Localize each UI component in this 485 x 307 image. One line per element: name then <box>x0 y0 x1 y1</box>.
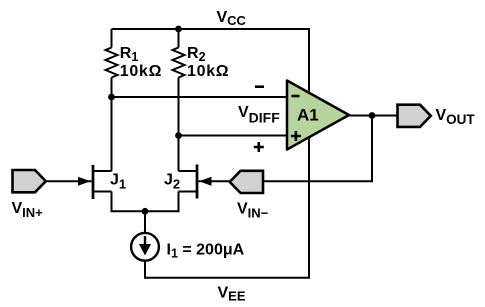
node VCC-R2 junction <box>175 26 182 33</box>
svg-text:A1: A1 <box>297 105 319 124</box>
svg-text:R1: R1 <box>120 45 139 64</box>
svg-text:10kΩ: 10kΩ <box>120 63 162 80</box>
node R1 to inverting input <box>108 94 115 101</box>
node output junction <box>369 112 376 119</box>
port tag VIN- <box>230 171 263 193</box>
svg-text:VIN+: VIN+ <box>12 200 44 220</box>
arrow into J2 gate <box>199 177 212 186</box>
pin mark plus (noninverting input) <box>291 131 301 141</box>
svg-text:VIN−: VIN− <box>237 200 269 220</box>
polarity label minus (above VDIFF) <box>255 85 264 88</box>
port tag VOUT <box>398 105 431 127</box>
port tag VIN+ <box>13 170 46 192</box>
wire R2 bottom lead down to J2 drain <box>178 78 180 172</box>
wire noninverting input (R2 node to op-amp plus) <box>179 135 288 137</box>
polarity label plus (below VDIFF) <box>254 142 264 152</box>
resistor R1 <box>106 48 118 78</box>
wire feedback from output node to VIN- tag <box>264 116 372 182</box>
svg-text:VEE: VEE <box>218 284 246 303</box>
svg-text:VDIFF: VDIFF <box>238 104 280 126</box>
wire R2 top lead <box>178 29 180 48</box>
transistor J1 (JFET, gate left) <box>93 165 112 199</box>
svg-text:J1: J1 <box>110 172 126 192</box>
wire R1 bottom lead down to J1 drain <box>111 78 113 172</box>
current source I1 <box>131 233 159 261</box>
wire op-amp output <box>349 115 398 117</box>
op-amp A1 <box>287 81 349 150</box>
node common source tail <box>142 208 149 215</box>
svg-text:I1 = 200μA: I1 = 200μA <box>167 241 245 260</box>
wire J1 source to common tail to J2 source <box>112 192 179 212</box>
wire VCC top rail and drop to op-amp V+ pin <box>112 29 310 92</box>
wire R1 top lead <box>111 29 113 48</box>
svg-text:VCC: VCC <box>217 9 247 28</box>
node R2 column to noninverting input <box>175 132 182 139</box>
svg-text:VOUT: VOUT <box>436 107 476 127</box>
resistor R2 <box>173 48 185 78</box>
transistor J2 (JFET, gate right) <box>179 165 198 199</box>
wire tail node to current source <box>144 211 146 233</box>
svg-text:10kΩ: 10kΩ <box>187 63 229 80</box>
wire current source to VEE rail and rise to op-amp V- pin <box>145 138 309 278</box>
svg-text:R2: R2 <box>187 45 206 64</box>
wire inverting input (R1 node to op-amp minus) <box>112 96 288 98</box>
pin mark minus (inverting input) <box>292 95 300 98</box>
wire J2 gate to VIN- tag <box>198 180 230 182</box>
arrow into J1 gate <box>78 177 91 186</box>
svg-text:J2: J2 <box>164 172 180 192</box>
wire VIN+ tag to J1 gate <box>46 180 92 182</box>
